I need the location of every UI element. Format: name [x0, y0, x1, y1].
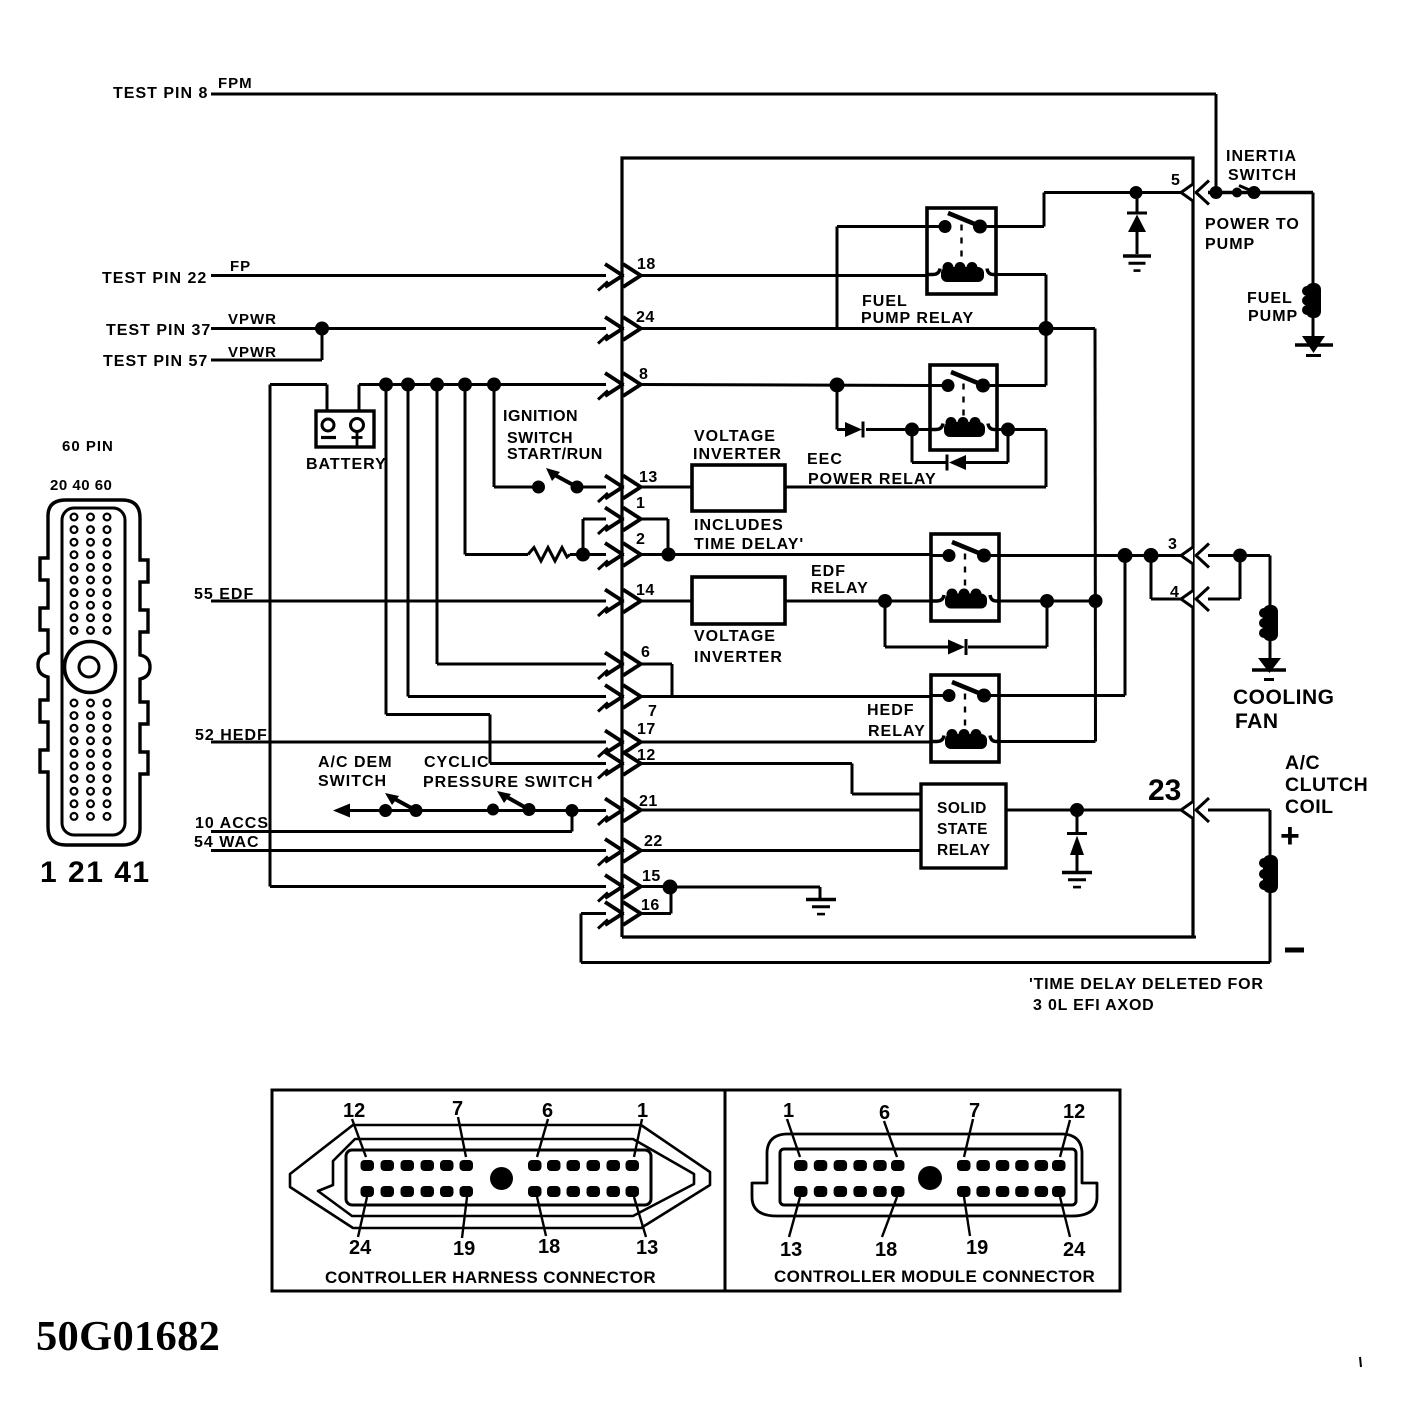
svg-text:COOLING: COOLING — [1233, 686, 1335, 709]
svg-text:2: 2 — [636, 531, 645, 548]
svg-text:POWER RELAY: POWER RELAY — [808, 471, 937, 488]
svg-text:13: 13 — [639, 469, 658, 486]
svg-text:23: 23 — [1148, 774, 1181, 807]
svg-text:24: 24 — [636, 309, 655, 326]
svg-text:19: 19 — [453, 1238, 475, 1260]
svg-text:TIME DELAY': TIME DELAY' — [694, 536, 804, 553]
svg-text:24: 24 — [1063, 1239, 1086, 1261]
svg-text:12: 12 — [343, 1100, 365, 1122]
svg-text:7: 7 — [648, 703, 657, 720]
svg-text:12: 12 — [1063, 1101, 1085, 1123]
svg-text:TEST PIN 8: TEST PIN 8 — [113, 85, 208, 102]
svg-text:TEST PIN 57: TEST PIN 57 — [103, 353, 208, 370]
svg-text:START/RUN: START/RUN — [507, 446, 603, 463]
svg-text:16: 16 — [641, 897, 660, 914]
svg-text:CYCLIC: CYCLIC — [424, 754, 490, 771]
svg-text:14: 14 — [636, 582, 655, 599]
svg-text:STATE: STATE — [937, 821, 988, 838]
svg-text:7: 7 — [452, 1098, 463, 1120]
svg-text:24: 24 — [349, 1237, 372, 1259]
svg-text:19: 19 — [966, 1237, 988, 1259]
svg-text:IGNITION: IGNITION — [503, 408, 578, 425]
svg-text:FP: FP — [230, 258, 251, 275]
svg-text:3 0L EFI AXOD: 3 0L EFI AXOD — [1033, 997, 1155, 1014]
svg-text:50G01682: 50G01682 — [36, 1313, 220, 1360]
svg-text:CLUTCH: CLUTCH — [1285, 774, 1368, 796]
svg-text:12: 12 — [637, 747, 656, 764]
svg-text:20 40 60: 20 40 60 — [50, 477, 112, 494]
svg-text:6: 6 — [542, 1100, 553, 1122]
svg-text:EDF: EDF — [811, 563, 846, 580]
svg-text:'TIME DELAY DELETED FOR: 'TIME DELAY DELETED FOR — [1029, 976, 1264, 993]
svg-text:PRESSURE SWITCH: PRESSURE SWITCH — [423, 774, 594, 791]
svg-text:18: 18 — [538, 1236, 560, 1258]
svg-text:17: 17 — [637, 721, 656, 738]
svg-text:13: 13 — [780, 1239, 802, 1261]
svg-text:HEDF: HEDF — [867, 702, 915, 719]
svg-text:+: + — [1280, 817, 1300, 855]
svg-text:POWER TO: POWER TO — [1205, 216, 1300, 233]
svg-text:TEST PIN 37: TEST PIN 37 — [106, 322, 211, 339]
svg-text:10 ACCS: 10 ACCS — [195, 815, 269, 832]
svg-text:7: 7 — [969, 1100, 980, 1122]
svg-text:52 HEDF: 52 HEDF — [195, 727, 268, 744]
svg-text:18: 18 — [637, 256, 656, 273]
svg-text:TEST PIN 22: TEST PIN 22 — [102, 270, 207, 287]
svg-text:8: 8 — [639, 366, 648, 383]
svg-text:6: 6 — [879, 1102, 890, 1124]
svg-text:FUEL: FUEL — [862, 293, 908, 310]
svg-text:22: 22 — [644, 833, 663, 850]
svg-text:VOLTAGE: VOLTAGE — [694, 628, 776, 645]
svg-text:13: 13 — [636, 1237, 658, 1259]
svg-text:VPWR: VPWR — [228, 311, 277, 328]
svg-text:PUMP RELAY: PUMP RELAY — [861, 310, 974, 327]
svg-text:SWITCH: SWITCH — [1228, 167, 1297, 184]
svg-text:CONTROLLER MODULE CONNECTOR: CONTROLLER MODULE CONNECTOR — [774, 1267, 1095, 1286]
svg-text:VPWR: VPWR — [228, 344, 277, 361]
svg-text:INCLUDES: INCLUDES — [694, 517, 784, 534]
svg-text:1 21 41: 1 21 41 — [40, 856, 151, 889]
svg-text:1: 1 — [636, 495, 645, 512]
svg-text:PUMP: PUMP — [1205, 236, 1255, 253]
svg-text:55 EDF: 55 EDF — [194, 586, 254, 603]
svg-text:A/C DEM: A/C DEM — [318, 754, 393, 771]
svg-text:EEC: EEC — [807, 451, 843, 468]
svg-text:15: 15 — [642, 868, 661, 885]
svg-text:INVERTER: INVERTER — [694, 649, 783, 666]
svg-text:5: 5 — [1171, 172, 1180, 189]
svg-text:FAN: FAN — [1235, 710, 1279, 733]
svg-text:A/C: A/C — [1285, 752, 1320, 774]
svg-text:PUMP: PUMP — [1248, 308, 1298, 325]
svg-text:6: 6 — [641, 644, 650, 661]
svg-text:SWITCH: SWITCH — [507, 430, 573, 447]
svg-text:SWITCH: SWITCH — [318, 773, 387, 790]
svg-text:SOLID: SOLID — [937, 800, 987, 817]
svg-text:RELAY: RELAY — [937, 842, 991, 859]
svg-text:COIL: COIL — [1285, 796, 1334, 818]
svg-text:FUEL: FUEL — [1247, 290, 1293, 307]
svg-text:1: 1 — [783, 1100, 794, 1122]
svg-text:CONTROLLER HARNESS CONNECTOR: CONTROLLER HARNESS CONNECTOR — [325, 1268, 656, 1287]
svg-text:1: 1 — [637, 1100, 648, 1122]
svg-text:21: 21 — [639, 793, 658, 810]
svg-text:RELAY: RELAY — [811, 580, 869, 597]
svg-text:BATTERY: BATTERY — [306, 456, 387, 473]
svg-text:VOLTAGE: VOLTAGE — [694, 428, 776, 445]
svg-text:RELAY: RELAY — [868, 723, 926, 740]
svg-text:FPM: FPM — [218, 75, 253, 92]
svg-text:3: 3 — [1168, 536, 1177, 553]
svg-text:INERTIA: INERTIA — [1226, 148, 1297, 165]
svg-text:54 WAC: 54 WAC — [194, 834, 260, 851]
svg-text:INVERTER: INVERTER — [693, 446, 782, 463]
svg-text:18: 18 — [875, 1239, 897, 1261]
svg-text:60 PIN: 60 PIN — [62, 438, 114, 455]
